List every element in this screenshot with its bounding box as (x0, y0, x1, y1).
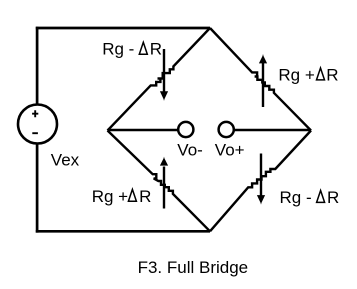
svg-text:Rg +: Rg + (92, 187, 128, 206)
variability arrow on R4 (down) (257, 154, 265, 205)
svg-text:R: R (326, 65, 338, 84)
svg-text:Rg +: Rg + (278, 65, 314, 84)
variability arrow on R1 (down) (160, 49, 168, 101)
resistor R4 Rg-dR bottom-right arm (210, 131, 311, 232)
minus sign inside source (32, 132, 38, 134)
variability arrow on R3 (up) (160, 157, 168, 209)
svg-text:R: R (327, 188, 339, 207)
svg-text:F3. Full Bridge: F3. Full Bridge (138, 258, 249, 277)
resistor R2 Rg+dR top-right arm (210, 28, 311, 131)
svg-text:Rg -: Rg - (280, 188, 312, 207)
plus sign inside source (32, 110, 38, 117)
svg-text:Vo+: Vo+ (215, 141, 245, 160)
variability arrow on R2 (up) (259, 54, 267, 107)
voltage source Vex circle (18, 105, 57, 144)
label Rg +dR for R3 (92, 187, 152, 206)
label Rg - dR for R1 (102, 40, 162, 59)
wire top horizontal from source branch to top node (36, 27, 210, 30)
terminal Vo+ circle (219, 122, 234, 137)
wire bottom horizontal to bottom node (36, 230, 210, 233)
label Rg +dR for R2 (278, 65, 338, 84)
resistor R1 Rg-dR top-left arm (108, 28, 211, 131)
svg-text:Rg -: Rg - (102, 40, 134, 59)
wire left vertical lower segment (36, 144, 39, 233)
svg-text:R: R (139, 187, 151, 206)
terminal Vo- circle (178, 122, 193, 137)
svg-text:Vex: Vex (51, 150, 80, 169)
wire left vertical upper segment (36, 27, 39, 105)
wire Vo+ terminal to right node (233, 129, 311, 132)
label Rg - dR for R4 (280, 188, 340, 207)
resistor R3 Rg+dR bottom-left arm (108, 131, 211, 232)
svg-text:Vo-: Vo- (177, 141, 203, 160)
svg-text:R: R (150, 40, 162, 59)
wire left node to Vo- terminal (108, 129, 179, 132)
